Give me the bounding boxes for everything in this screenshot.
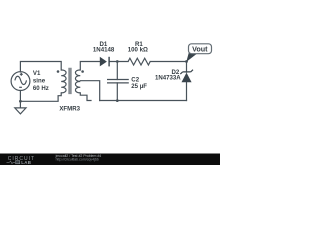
wire D2 top lead xyxy=(186,62,188,73)
labels xyxy=(33,41,208,113)
transformer phase dot left xyxy=(57,70,60,73)
Vout label box xyxy=(189,44,212,54)
capacitor C2 xyxy=(107,80,129,83)
transformer XFMR3 right coil xyxy=(75,70,80,93)
transformer XFMR3 left coil xyxy=(61,70,66,93)
node junction Vout xyxy=(185,60,188,63)
svg-text:http://circuitlab.com/cqv4j6b: http://circuitlab.com/cqv4j6b xyxy=(56,158,99,162)
zener diode D2 xyxy=(180,70,193,83)
footer watermark bar xyxy=(0,154,220,166)
wire D2 bottom lead xyxy=(186,82,188,100)
svg-text:XFMR3: XFMR3 xyxy=(59,106,80,113)
wire primary bottom: left coil to V1/ground xyxy=(20,93,61,101)
Vout flag pointer xyxy=(186,53,196,62)
svg-text:sine: sine xyxy=(33,78,46,85)
wire D1 cathode to node xyxy=(109,61,128,63)
footer CircuitLab logo xyxy=(7,156,36,165)
wire primary top: V1 top to left coil xyxy=(20,62,61,72)
diode D1 xyxy=(100,57,109,67)
wire stub secondary bottom pin xyxy=(80,93,91,101)
ground xyxy=(15,108,26,114)
svg-text:1N4148: 1N4148 xyxy=(93,47,115,54)
svg-text:100 kΩ: 100 kΩ xyxy=(128,47,148,54)
wire secondary top: right coil to D1 xyxy=(80,62,100,71)
svg-text:25 µF: 25 µF xyxy=(131,83,147,90)
node junction C2 bottom rail xyxy=(116,99,119,102)
wire bottom rail xyxy=(100,100,187,102)
svg-text:LAB: LAB xyxy=(21,160,31,165)
footer credit text xyxy=(55,154,102,162)
transformer phase dot right xyxy=(81,70,84,73)
wire C2 top xyxy=(116,62,118,80)
wire center tap to bottom rail xyxy=(80,81,99,101)
wire V1 bottom to ground xyxy=(19,91,21,108)
resistor R1 xyxy=(128,58,150,65)
transformer core xyxy=(69,68,71,94)
svg-text:60 Hz: 60 Hz xyxy=(33,85,49,92)
svg-text:V1: V1 xyxy=(33,70,41,77)
node junction D1-R1-C2 xyxy=(116,60,119,63)
voltage source V1 xyxy=(11,72,30,91)
svg-text:Vout: Vout xyxy=(192,44,208,53)
wire R1 to node Vout xyxy=(150,61,186,63)
wire C2 bottom xyxy=(116,83,118,101)
svg-text:1N4733A: 1N4733A xyxy=(155,74,181,81)
node junction at V1/ground xyxy=(19,100,22,103)
